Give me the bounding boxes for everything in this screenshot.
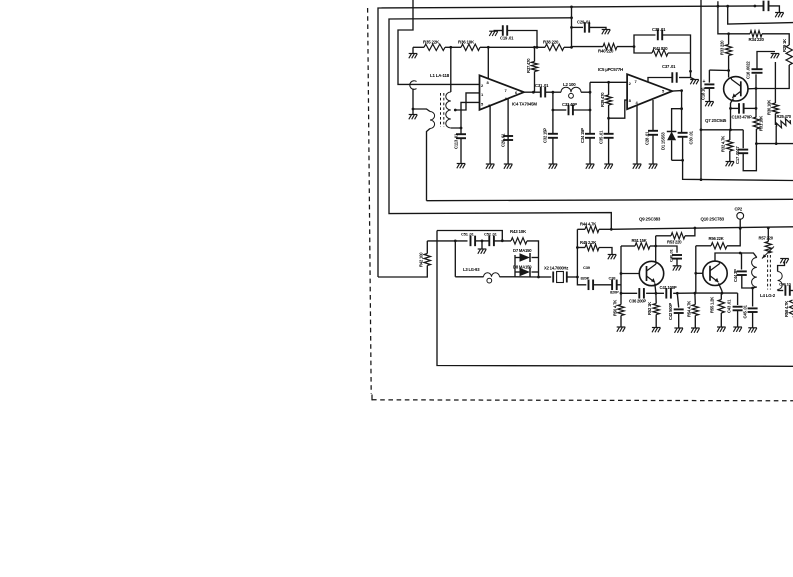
svg-text:Q9 2SC383: Q9 2SC383 <box>639 217 661 222</box>
ground under R54 <box>691 328 700 333</box>
wire V756 <box>755 89 757 118</box>
resistor R53 <box>671 233 685 239</box>
wire antenna input from top <box>398 0 480 84</box>
node W1-728 <box>726 5 729 8</box>
wire out rail right <box>683 160 793 180</box>
ground IC4 pin3 <box>486 164 495 169</box>
capacitor C35 <box>604 134 614 138</box>
resistor R34 <box>750 31 762 37</box>
label L1 <box>430 73 450 78</box>
svg-text:R45 2.2K: R45 2.2K <box>580 240 596 245</box>
wire C38b row <box>577 277 586 285</box>
wire C51-C52 <box>475 240 489 242</box>
node C19 row <box>536 46 539 49</box>
wire gnd stub C37 <box>691 78 695 80</box>
wire pin8 vertical <box>487 47 489 79</box>
label D7 <box>513 248 532 253</box>
svg-text:820P: 820P <box>581 276 590 281</box>
slug L2 <box>569 93 574 98</box>
ground under C43 <box>733 327 742 332</box>
svg-text:D8 MA150: D8 MA150 <box>513 265 532 270</box>
svg-text:IC5 µPC577H: IC5 µPC577H <box>598 67 623 72</box>
wire IC5 pin4 gnd <box>636 105 638 165</box>
wire C103 leads <box>731 107 757 109</box>
svg-text:R58 4.7K: R58 4.7K <box>784 301 789 317</box>
wire R25 left <box>775 126 777 144</box>
label R42 <box>419 252 424 267</box>
label C45 <box>743 304 748 318</box>
transformer L4 core <box>768 255 771 290</box>
wire line A <box>427 199 793 200</box>
label C41 <box>660 285 677 290</box>
wire Q10 base post <box>695 246 697 293</box>
node C51 feed <box>454 240 457 243</box>
svg-text:L2 100: L2 100 <box>563 82 576 87</box>
wire L3 row <box>455 241 483 277</box>
node C33 left <box>552 109 555 112</box>
label C103 <box>732 115 752 120</box>
svg-text:R33 220: R33 220 <box>720 40 725 55</box>
pin 2 IC4 <box>481 83 484 88</box>
wire R52 leads <box>655 293 657 327</box>
wire R51 leads <box>621 245 656 247</box>
svg-text:C44 3P: C44 3P <box>733 269 738 282</box>
resistor R57 <box>765 242 771 254</box>
node D1 row <box>680 107 683 110</box>
node C31 out <box>552 91 555 94</box>
svg-text:C52 .01: C52 .01 <box>484 232 498 237</box>
ground IC4 pin4 <box>504 164 513 169</box>
wire R35-R36 <box>445 46 461 48</box>
resistor R31 <box>753 117 759 129</box>
label Q7 <box>705 118 727 123</box>
wire Q10 collector <box>715 253 740 261</box>
label Q9 <box>639 217 661 222</box>
svg-text:C45 .01: C45 .01 <box>743 304 748 318</box>
capacitor on W1 right <box>764 1 769 12</box>
svg-text:C42 500P: C42 500P <box>668 303 673 320</box>
op-amp IC5 <box>627 74 672 109</box>
node Q10 emitter <box>721 292 724 295</box>
svg-text:C28 .01: C28 .01 <box>645 131 650 145</box>
svg-text:L3 LG-93: L3 LG-93 <box>463 267 480 272</box>
label C16 <box>746 61 751 79</box>
wire R44 row left <box>577 228 585 230</box>
node Q9 base <box>620 272 623 275</box>
capacitor C39b <box>589 280 594 291</box>
pin 7 IC4 <box>505 88 508 93</box>
wire R34 right <box>762 34 789 45</box>
wire Q7 collector <box>728 71 730 78</box>
wire C32 gnd <box>552 138 554 164</box>
crystal X2 body <box>557 272 564 283</box>
wire V571 <box>571 7 573 47</box>
label C40 <box>669 248 674 262</box>
svg-text:+: + <box>703 79 706 85</box>
label C33 <box>562 102 577 107</box>
wire R33 leads <box>728 34 730 71</box>
svg-text:C17 .0047: C17 .0047 <box>735 146 740 164</box>
label R30 <box>767 100 772 115</box>
transformer L4 primary <box>752 258 757 288</box>
label R34 <box>749 37 765 42</box>
wire hook to L1 <box>413 89 430 112</box>
wire V590 <box>589 82 591 133</box>
wire D8 row <box>515 271 539 273</box>
svg-text:C16 .0022: C16 .0022 <box>746 61 751 79</box>
label C20 <box>501 133 506 147</box>
wire W1 supply rail top <box>378 6 763 277</box>
wire C52 right <box>494 240 511 242</box>
svg-text:C103 470P: C103 470P <box>732 115 752 120</box>
resistor R30 <box>772 103 778 114</box>
svg-text:IC4 TA7045M: IC4 TA7045M <box>512 102 537 107</box>
wire R43 right <box>527 241 539 255</box>
node row230 join <box>501 239 504 242</box>
label C44 <box>733 269 738 282</box>
wire R32 leads <box>729 130 731 162</box>
label C37 <box>662 64 676 69</box>
wire C17 top <box>742 130 744 148</box>
wire C16 lower <box>755 74 757 88</box>
svg-text:C29 .01: C29 .01 <box>577 20 591 25</box>
wire out down <box>681 91 683 109</box>
resistor R45 <box>585 244 599 250</box>
ground under hook <box>409 115 418 120</box>
svg-text:C20 .01: C20 .01 <box>501 133 506 147</box>
wire W1 to ground <box>769 6 780 12</box>
svg-text:R51 15K: R51 15K <box>632 238 647 243</box>
svg-text:R43 10K: R43 10K <box>510 229 527 234</box>
slug L3 <box>487 278 492 283</box>
wire C113 upper <box>460 128 462 134</box>
label R51 <box>632 238 647 243</box>
svg-text:C35 .01: C35 .01 <box>599 130 604 144</box>
wire R30 leads <box>774 62 776 125</box>
svg-text:C18 10: C18 10 <box>701 87 706 100</box>
node W1-755 <box>754 5 757 8</box>
node V571 bottom <box>570 46 573 49</box>
ground under R55 <box>717 327 726 332</box>
svg-text:R29 1K: R29 1K <box>782 39 787 52</box>
transformer L1 core <box>441 93 444 127</box>
node L2 out <box>589 91 592 94</box>
wire R40 right <box>617 46 634 48</box>
wire C38 left <box>634 35 656 47</box>
resistor R25 diag <box>775 117 791 129</box>
wire R44 right <box>599 228 611 230</box>
capacitor C45 <box>748 308 758 312</box>
capacitor C42 <box>674 309 684 313</box>
wire C38 right <box>662 35 690 53</box>
svg-text:R56 22K: R56 22K <box>709 236 724 241</box>
capacitor C38b <box>612 280 617 291</box>
plus C18 <box>703 79 706 85</box>
svg-text:C38: C38 <box>609 276 617 281</box>
label R55 <box>710 297 715 313</box>
node pin8 feed <box>487 46 490 49</box>
wire Q9 collector <box>655 236 657 262</box>
node R33 top <box>727 32 730 35</box>
capacitor C16 <box>752 69 763 73</box>
wire D1 bottom <box>671 140 673 160</box>
pin 7 IC5 <box>635 79 638 84</box>
wire R57 top <box>767 228 769 242</box>
label C46 <box>779 282 792 287</box>
svg-text:C41 100P: C41 100P <box>660 285 677 290</box>
capacitor C20 <box>503 136 513 140</box>
label R38 <box>543 40 559 45</box>
wire mid rail <box>611 227 793 230</box>
wire D1-C30 bottoms <box>672 159 683 161</box>
svg-text:C51 .01: C51 .01 <box>461 232 475 237</box>
label R44 <box>580 222 596 227</box>
ground under R52 <box>652 328 661 333</box>
svg-text:C31 .01: C31 .01 <box>535 83 549 88</box>
svg-text:R31 10K: R31 10K <box>759 116 764 131</box>
label R50 <box>613 300 618 316</box>
label C36 <box>629 299 646 304</box>
label L4 <box>760 293 776 298</box>
wire R38 right <box>564 46 572 48</box>
svg-text:X2 14.7000Hz: X2 14.7000Hz <box>544 266 568 271</box>
node C36 left <box>620 292 623 295</box>
label C43 <box>727 299 732 313</box>
label R54 <box>687 301 692 317</box>
wire C18 gnd <box>708 88 710 102</box>
label C39b top <box>583 265 591 270</box>
svg-text:Q10 2SC783: Q10 2SC783 <box>701 217 725 222</box>
svg-text:R41 820: R41 820 <box>653 46 668 51</box>
wire Q9 base <box>621 273 640 275</box>
wire C28 vertical <box>652 100 654 131</box>
wire emitter row <box>701 129 743 131</box>
wire Q10 emitter <box>719 283 723 293</box>
capacitor C37 <box>672 72 676 83</box>
node C103 right <box>755 107 758 110</box>
svg-text:C43 .01: C43 .01 <box>727 299 732 313</box>
wire V690 <box>690 53 692 78</box>
node R53 rail <box>694 227 697 230</box>
svg-text:Q7 2SC945: Q7 2SC945 <box>705 118 727 123</box>
inductor L3 <box>484 273 500 277</box>
svg-text:R36 10K: R36 10K <box>458 40 475 45</box>
node caps mid <box>481 240 484 243</box>
label C32 <box>543 128 548 143</box>
resistor R29 <box>786 45 792 65</box>
op-amp IC4 <box>480 75 524 110</box>
label R32 <box>721 136 726 152</box>
ground L4 top <box>780 259 789 264</box>
ground under C34 <box>586 164 595 169</box>
ground under C32 <box>549 164 558 169</box>
pin 8 IC4 <box>487 80 490 85</box>
label R40 <box>598 49 614 54</box>
wire diode left post <box>514 255 516 277</box>
wire V701 from top <box>700 0 702 179</box>
capacitor C28 <box>648 131 658 135</box>
wire C19 left lead <box>494 30 503 32</box>
wire L4 sec bottom <box>778 290 784 291</box>
svg-text:C30 .01: C30 .01 <box>689 130 694 144</box>
node Q10 base <box>694 272 697 275</box>
resistor R51 <box>635 243 650 249</box>
label C28 <box>645 131 650 145</box>
wire C30 vertical <box>681 109 683 133</box>
diode D1 <box>667 132 677 141</box>
label C18 <box>701 87 706 100</box>
node R39 top <box>607 81 610 84</box>
node R54 top <box>694 292 697 295</box>
node R39 bottom <box>607 117 610 120</box>
wire C33 left lead <box>553 109 566 111</box>
capacitor C44 top <box>741 253 743 270</box>
arrow R57 slug <box>762 247 774 259</box>
ground under R45 <box>608 255 617 260</box>
wire R40 left <box>572 46 604 48</box>
svg-text:C113 .01: C113 .01 <box>454 133 459 149</box>
svg-text:L4 LG-2: L4 LG-2 <box>760 293 776 298</box>
svg-text:R34 220: R34 220 <box>749 37 765 42</box>
node C30 bottom <box>681 159 684 162</box>
resistor R55 <box>718 300 724 314</box>
transformer L1 primary coil <box>430 112 435 129</box>
label C39b bot <box>581 276 590 281</box>
resistor R56 <box>711 243 727 249</box>
label R29 <box>782 39 787 52</box>
pin 4 IC5 <box>636 100 639 105</box>
svg-text:R37 470: R37 470 <box>526 58 531 73</box>
wire L4 primary bottom <box>753 287 757 288</box>
capacitor C32 <box>548 134 558 138</box>
capacitor C33 <box>569 105 573 116</box>
transformer L4 secondary <box>778 272 783 290</box>
label C17 <box>735 146 740 164</box>
wire C30 bottom <box>682 137 684 160</box>
resistor R54 <box>692 305 698 316</box>
svg-text:CP2: CP2 <box>735 207 743 212</box>
resistor R32 <box>727 140 733 151</box>
label C38 <box>652 27 666 32</box>
wire L3 to diodes <box>500 276 539 278</box>
transistor Q7 <box>724 77 748 101</box>
wire V718 <box>718 1 727 34</box>
capacitor C34 <box>585 134 595 138</box>
wire R42 bottom <box>378 266 427 278</box>
svg-text:R38 220: R38 220 <box>543 40 559 45</box>
label R39 <box>600 92 605 107</box>
node crystal out <box>576 276 579 279</box>
resistor R37 <box>531 62 537 72</box>
wire R53 leads <box>656 228 695 236</box>
node C45 top <box>751 287 754 290</box>
capacitor C17 <box>738 150 748 154</box>
wire C31-L2 <box>545 91 561 93</box>
label L3 <box>463 267 480 272</box>
wire R29 bottom <box>756 65 789 89</box>
pin 8 IC5 <box>629 98 632 103</box>
label R33 <box>720 40 725 55</box>
node CP2 rail <box>739 227 742 230</box>
svg-text:L1 LA-118: L1 LA-118 <box>430 73 450 78</box>
diode D7 <box>520 253 531 262</box>
svg-text:R32 4.7K: R32 4.7K <box>721 136 726 152</box>
node C42 top <box>676 292 679 295</box>
ground under R50 <box>617 327 626 332</box>
wire C43 post <box>737 293 739 305</box>
wire caps mid band <box>593 284 612 286</box>
pin 4 IC4 <box>505 96 508 101</box>
wire caps gnd stub <box>481 241 483 249</box>
resistor R35 <box>424 44 445 50</box>
node IC5 out <box>680 89 683 92</box>
label C34 <box>580 128 585 143</box>
wire L2 right <box>581 91 590 93</box>
wire C38b right <box>617 284 621 286</box>
dashed border left <box>368 8 372 394</box>
svg-text:D7 MA150: D7 MA150 <box>513 248 532 253</box>
label R45 <box>580 240 596 245</box>
wire C42 gnd <box>678 313 680 328</box>
wire C41 row <box>656 292 695 294</box>
wire diode right post <box>538 255 540 277</box>
pin 5 IC5 <box>662 89 665 94</box>
node V701 emitter row <box>700 128 703 131</box>
label R37 <box>526 58 531 73</box>
wire C37 right lead <box>679 77 691 79</box>
capacitor C30 <box>678 133 688 137</box>
node V690 <box>689 70 692 73</box>
svg-text:D1 1SS53: D1 1SS53 <box>661 132 666 150</box>
label C42 <box>668 303 673 320</box>
wire R34 row <box>727 33 750 35</box>
wire R45 leads <box>577 248 612 255</box>
wire row 143 <box>756 143 793 145</box>
resistor R44 <box>585 226 599 232</box>
label R58 <box>784 301 789 317</box>
wire V577 <box>576 229 578 277</box>
svg-text:R53 220: R53 220 <box>667 240 682 245</box>
node T1 top <box>449 46 452 49</box>
wire C44 bottom <box>742 275 753 288</box>
wire CP2 stub <box>739 219 741 228</box>
ground under R32 <box>726 162 735 167</box>
wire to D1 <box>672 109 682 132</box>
node crystal left <box>537 276 540 279</box>
transformer L1 secondary coil <box>446 92 451 128</box>
svg-text:R42 100: R42 100 <box>419 252 424 267</box>
ground IC5 pin4 <box>633 164 642 169</box>
wire V728 off edge <box>728 6 793 24</box>
resistor R50 <box>618 305 624 316</box>
svg-text:C36 200P: C36 200P <box>629 299 646 304</box>
dashed border bottom <box>372 395 793 401</box>
wire crystal left lead <box>539 276 552 278</box>
node Q7 collector <box>727 69 730 72</box>
resistor R40 <box>603 43 617 49</box>
svg-text:C38 .01: C38 .01 <box>652 27 666 32</box>
ground under C51-C52 <box>478 249 487 254</box>
svg-text:C19 .01: C19 .01 <box>500 36 514 41</box>
svg-text:R40 220: R40 220 <box>598 49 614 54</box>
label L2 <box>563 82 576 87</box>
wire L1 secondary top <box>450 47 452 92</box>
wire Q7 emitter <box>731 99 734 130</box>
svg-text:R25 470: R25 470 <box>777 114 792 119</box>
svg-text:C39: C39 <box>583 265 591 270</box>
node R25 column <box>775 142 778 145</box>
wire R39 leads <box>608 82 610 118</box>
